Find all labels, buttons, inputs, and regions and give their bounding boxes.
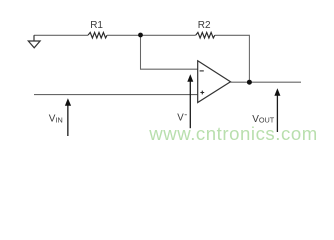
wire: node A to R2 [141,34,196,36]
output node junction dot [247,80,252,85]
VOUT arrow [274,88,280,132]
wire: op-amp output line [231,81,302,83]
op-amp U1 [198,61,231,103]
svg-text:VOUT: VOUT [252,114,275,125]
svg-text:R2: R2 [198,20,211,31]
VIN arrow [65,98,71,136]
wire: VIN line to non-inverting input [34,94,198,96]
wire: R1 to node A [107,34,141,36]
svg-text:www.cntronics.com: www.cntronics.com [148,123,317,144]
wire: node A down to inverting input [141,35,198,69]
svg-text:R1: R1 [90,20,103,31]
resistor R2 [196,32,215,38]
resistor R1 [88,32,107,38]
svg-text:VIN: VIN [49,114,63,125]
wire: ground to R1 [34,34,88,36]
node A junction dot [138,33,143,38]
ground [28,35,40,48]
V- arrow (inverting input voltage) [187,74,193,128]
wire: R2 to top-right corner, down to output node [215,35,250,82]
